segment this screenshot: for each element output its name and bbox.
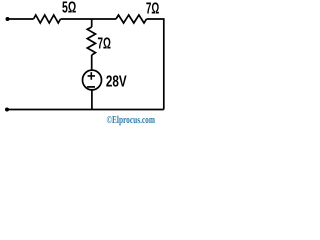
node B (bottom-left terminal dot) [5, 108, 9, 112]
wire (top-right corner and right side) [147, 19, 164, 110]
resistor R2 [116, 15, 147, 23]
node A (top-left terminal dot) [6, 17, 10, 21]
svg-text:28V: 28V [106, 74, 127, 91]
wire (top middle segment through junction) [61, 18, 117, 20]
svg-text:7Ω: 7Ω [98, 36, 112, 53]
resistor R3 (vertical) [87, 27, 95, 55]
polarity minus sign [87, 86, 95, 88]
voltage source V1 (circle) [83, 70, 102, 90]
resistor R1 [34, 15, 61, 23]
polarity plus sign [88, 72, 95, 80]
svg-text:©Elprocus.com: ©Elprocus.com [107, 115, 156, 126]
svg-text:7Ω: 7Ω [146, 0, 160, 17]
wire (middle branch lower stub) [91, 89, 93, 110]
wire (middle branch upper stub) [91, 19, 93, 27]
wire (bottom segment) [7, 109, 164, 111]
svg-text:5Ω: 5Ω [62, 0, 76, 17]
wire (top-left segment) [8, 18, 34, 20]
wire (middle branch between resistor and source) [91, 55, 93, 71]
